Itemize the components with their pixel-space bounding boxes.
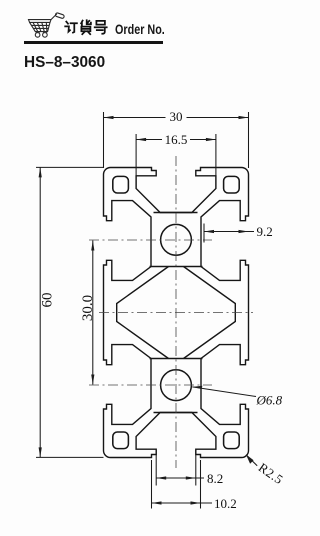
dim 10.2 line <box>152 502 213 504</box>
dim 60 line <box>39 167 41 457</box>
svg-text:30.0: 30.0 <box>80 295 96 321</box>
svg-text:9.2: 9.2 <box>257 224 273 239</box>
R2.5 leader <box>246 455 257 466</box>
dim 16.5 line <box>136 139 216 141</box>
chinese label "ding huo hao" drawn strokes <box>65 20 107 34</box>
dim 30 line <box>104 117 249 119</box>
bottom core top face <box>150 358 203 360</box>
vertical centerline <box>175 156 177 468</box>
top core centerline <box>89 239 212 241</box>
arrows dim 30.0 <box>91 241 94 251</box>
dim 16.5 ext lines <box>136 134 216 188</box>
char hao <box>96 21 105 25</box>
arrows dim 9.2 <box>204 230 214 233</box>
bottom core bottom face <box>154 412 198 414</box>
dim 8.2 ext lines <box>156 450 196 486</box>
arrows dim 8.2 <box>156 476 166 479</box>
arrows dim 16.5 <box>136 138 146 141</box>
char ding <box>66 22 68 24</box>
header underline <box>24 41 163 44</box>
arrows dim 30 <box>104 116 114 119</box>
arrows dim 10.2 <box>152 501 162 504</box>
bottom core hole <box>161 370 192 401</box>
top core top face <box>154 212 198 214</box>
middle centerline <box>99 312 253 314</box>
dim 9.2 ext line <box>203 224 205 243</box>
bottom core centerline <box>89 384 212 386</box>
dia 6.8 leader <box>192 387 256 397</box>
dim 60 ext lines <box>36 167 104 457</box>
model number <box>24 54 105 72</box>
svg-text:Ø6.8: Ø6.8 <box>256 393 283 408</box>
top core bottom face <box>150 266 203 268</box>
corner hole bottom-left <box>113 432 129 449</box>
char huo <box>81 21 83 27</box>
profile outline with T-slots <box>104 168 249 458</box>
dim 30.0 line <box>92 241 94 385</box>
dim 9.2 line <box>204 231 254 233</box>
svg-text:R2.5: R2.5 <box>256 460 286 488</box>
svg-text:8.2: 8.2 <box>207 471 223 486</box>
cart icon <box>29 13 65 38</box>
corner hole top-left <box>113 176 129 193</box>
top core hole <box>161 224 192 255</box>
central cavity <box>117 267 236 359</box>
svg-text:10.2: 10.2 <box>214 496 237 511</box>
header english label <box>115 22 165 37</box>
corner hole bottom-right <box>224 432 240 449</box>
dim 30 ext lines <box>104 112 249 168</box>
svg-text:30: 30 <box>170 109 183 124</box>
svg-text:16.5: 16.5 <box>165 132 188 147</box>
corner hole top-right <box>224 176 240 193</box>
dim 8.2 line <box>156 477 204 479</box>
dim 10.2 ext lines <box>152 460 201 509</box>
arrow dia 6.8 <box>192 386 202 389</box>
svg-text:60: 60 <box>40 293 56 308</box>
arrows dim 60 <box>39 167 42 177</box>
arrow R2.5 <box>246 454 254 463</box>
